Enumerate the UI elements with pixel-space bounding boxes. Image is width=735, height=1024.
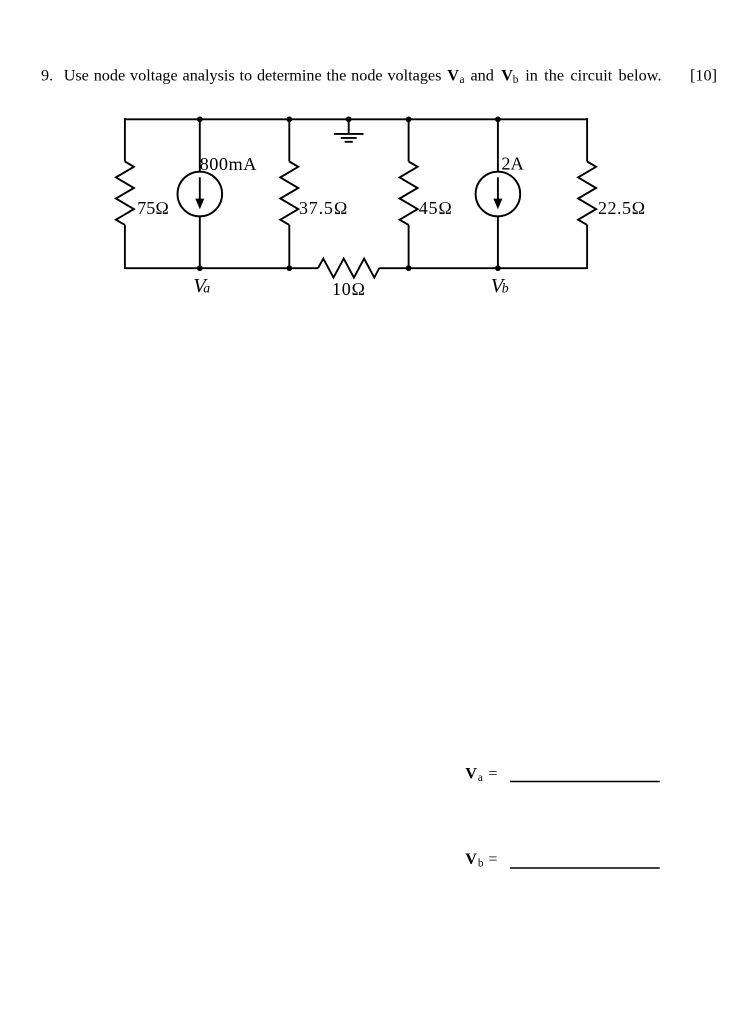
svg-text:[10]: [10] bbox=[690, 67, 717, 85]
svg-text:75Ω: 75Ω bbox=[137, 198, 169, 218]
svg-text:Use node voltage analysis to d: Use node voltage analysis to determine t… bbox=[64, 67, 442, 85]
resistor 45Ω branch bbox=[400, 119, 418, 268]
svg-text:b: b bbox=[513, 74, 519, 86]
ground bbox=[334, 119, 364, 142]
wire bottom left segment bbox=[125, 267, 318, 269]
resistor 75Ω left branch bbox=[116, 118, 134, 269]
svg-text:a: a bbox=[460, 74, 465, 86]
wire bottom right segment bbox=[379, 267, 587, 269]
problem statement text bbox=[41, 67, 662, 87]
junction dot bottom at 45Ω branch bbox=[406, 265, 412, 271]
current source 800mA bbox=[178, 119, 223, 268]
svg-text:Va=: Va= bbox=[465, 764, 497, 784]
svg-text:b: b bbox=[502, 281, 509, 296]
junction dot top at 45Ω branch bbox=[406, 116, 412, 122]
resistor 10Ω bottom branch bbox=[318, 259, 379, 278]
junction dot top at 2A branch bbox=[495, 116, 501, 122]
svg-text:in the circuit below.: in the circuit below. bbox=[525, 67, 662, 85]
svg-text:10Ω: 10Ω bbox=[332, 279, 366, 299]
answer blank line for Va bbox=[510, 781, 660, 783]
junction dot top at ground bbox=[346, 116, 352, 122]
svg-text:V: V bbox=[447, 67, 459, 85]
current source 2A bbox=[476, 119, 521, 268]
svg-text:V: V bbox=[501, 67, 513, 85]
svg-text:45Ω: 45Ω bbox=[419, 198, 453, 218]
answer blank line for Vb bbox=[510, 867, 660, 869]
resistor 22.5Ω right branch bbox=[578, 118, 596, 269]
junction dot node Vb bbox=[495, 265, 501, 271]
svg-text:and: and bbox=[471, 67, 494, 85]
junction dot bottom at 37.5Ω branch bbox=[286, 265, 292, 271]
junction dot node Va bbox=[197, 265, 203, 271]
junction dot top at 800mA branch bbox=[197, 116, 203, 122]
svg-text:a: a bbox=[203, 281, 210, 296]
junction dot top at 37.5Ω branch bbox=[286, 116, 292, 122]
svg-text:2A: 2A bbox=[501, 153, 524, 173]
svg-text:800mA: 800mA bbox=[200, 154, 258, 174]
svg-text:37.5Ω: 37.5Ω bbox=[299, 198, 348, 218]
svg-text:Vb=: Vb= bbox=[465, 850, 497, 870]
svg-text:22.5Ω: 22.5Ω bbox=[598, 198, 646, 218]
svg-text:9.: 9. bbox=[41, 67, 53, 85]
resistor 37.5Ω branch bbox=[280, 119, 298, 268]
wire top bus bbox=[125, 118, 587, 120]
